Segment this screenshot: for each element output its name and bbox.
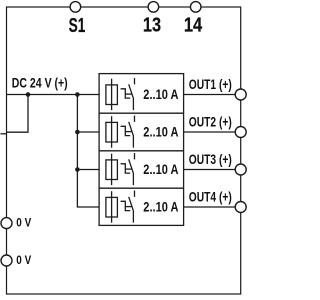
terminal 0V lower — [1, 255, 12, 266]
divider 1 — [99, 112, 184, 114]
svg-text:OUT1 (+): OUT1 (+) — [189, 76, 232, 92]
fuse F1 — [111, 79, 113, 111]
node junction channel 3 — [75, 167, 80, 172]
terminal S1 — [70, 2, 81, 13]
svg-text:S1: S1 — [69, 15, 86, 37]
terminal OUT1 — [235, 89, 246, 100]
wire OUT2 — [184, 131, 241, 133]
terminal 13 — [148, 2, 159, 13]
svg-text:13: 13 — [143, 15, 161, 37]
svg-text:2..10 A: 2..10 A — [143, 86, 178, 102]
wire to channel 2 — [77, 131, 99, 133]
fuse F4 — [111, 191, 113, 223]
svg-text:OUT2 (+): OUT2 (+) — [189, 114, 232, 130]
terminal 14 — [190, 2, 201, 13]
wire OUT3 — [184, 169, 241, 171]
terminal OUT3 — [235, 164, 246, 175]
breaker switch Q1 — [134, 78, 136, 84]
wire distribution rail — [77, 95, 99, 208]
svg-text:DC 24 V (+): DC 24 V (+) — [12, 75, 68, 91]
breaker switch Q4 — [134, 191, 136, 197]
breaker switch Q3 — [134, 153, 136, 159]
svg-text:OUT3 (+): OUT3 (+) — [189, 151, 232, 167]
divider 2 — [99, 150, 184, 152]
fuse F2 — [111, 116, 113, 148]
svg-text:2..10 A: 2..10 A — [143, 161, 178, 177]
svg-text:OUT4 (+): OUT4 (+) — [189, 189, 232, 205]
wire stub outside border — [1, 133, 7, 135]
svg-text:0 V: 0 V — [16, 216, 31, 230]
breaker module box — [99, 74, 184, 226]
terminal 0V upper — [1, 218, 12, 229]
fuse F3 — [111, 154, 113, 186]
svg-text:14: 14 — [184, 15, 203, 37]
node junction rail top — [75, 92, 80, 97]
breaker switch Q2 — [134, 116, 136, 122]
terminal OUT4 — [235, 202, 246, 213]
node junction on DC wire — [26, 92, 31, 97]
wire OUT1 — [184, 94, 241, 96]
wire loop to left border — [7, 95, 29, 133]
svg-text:0 V: 0 V — [16, 253, 31, 267]
svg-text:2..10 A: 2..10 A — [143, 123, 178, 139]
node junction channel 2 — [75, 130, 80, 135]
svg-text:2..10 A: 2..10 A — [143, 198, 178, 214]
wire to channel 3 — [77, 169, 99, 171]
divider 3 — [99, 187, 184, 189]
wire OUT4 — [184, 206, 241, 208]
terminal OUT2 — [235, 127, 246, 138]
wire DC 24V feed — [7, 94, 100, 96]
device outline border — [7, 7, 241, 294]
